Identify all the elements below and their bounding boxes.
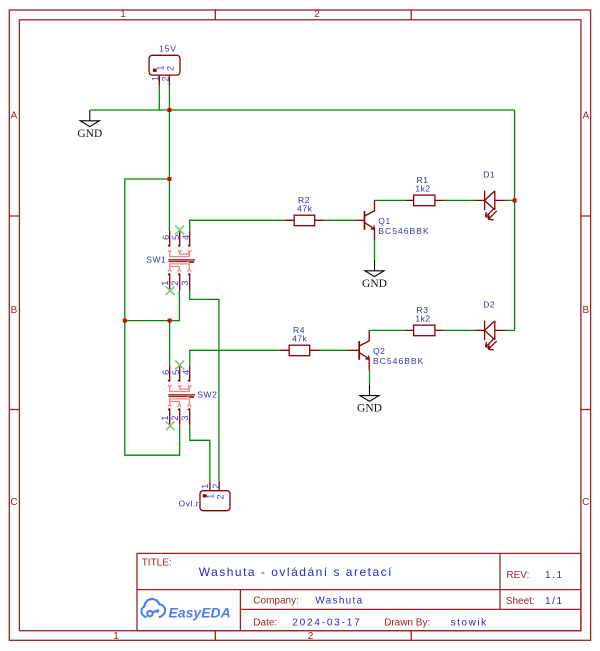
wire Q2 collector to R3 <box>370 329 405 331</box>
wire Q2 emitter to GND <box>369 369 371 385</box>
connector P1 15V body <box>149 55 180 75</box>
svg-text:Sheet:: Sheet: <box>506 596 535 607</box>
resistor R4 body <box>289 345 310 356</box>
svg-text:2: 2 <box>211 484 221 489</box>
junction left rail y320 <box>123 319 127 323</box>
svg-text:2: 2 <box>161 76 171 81</box>
svg-text:B: B <box>11 305 18 316</box>
ground GND1 <box>77 110 102 140</box>
svg-text:C: C <box>10 497 17 508</box>
diode D2 <box>475 321 505 350</box>
svg-text:A: A <box>11 111 18 122</box>
titleblock outline <box>137 553 581 630</box>
svg-text:Company:: Company: <box>253 596 299 607</box>
wire 15V pin2 drop <box>168 86 170 110</box>
TITLEBLOCK <box>137 553 581 630</box>
diode D1 <box>475 191 505 220</box>
wire R4 to Q2 base <box>320 349 351 351</box>
svg-text:Ovl.r: Ovl.r <box>178 499 199 509</box>
EasyEDA logo cloud <box>141 599 165 617</box>
svg-text:2: 2 <box>166 66 176 71</box>
resistor R1 leads <box>405 199 445 201</box>
titleblock row divider 1 <box>137 589 581 591</box>
switch SW1 <box>168 231 195 291</box>
wire SW1 pin2 to left rail <box>125 291 180 321</box>
svg-text:stowik: stowik <box>451 618 488 629</box>
svg-text:47k: 47k <box>297 204 313 214</box>
wire top rail horizontal 15V <box>91 109 515 111</box>
resistor R1 body <box>414 195 435 206</box>
ground GND3 <box>357 385 382 415</box>
titleblock divider logo cell <box>239 590 241 631</box>
switch SW2 <box>168 366 195 426</box>
wire branch left at y179 <box>125 179 180 455</box>
svg-text:D2: D2 <box>483 299 495 309</box>
svg-text:EasyEDA: EasyEDA <box>169 604 231 620</box>
svg-text:TITLE:: TITLE: <box>142 558 172 569</box>
connector P1 pin1 mark <box>153 69 157 72</box>
connector P2 Ovl.r body <box>200 491 230 511</box>
svg-text:4: 4 <box>181 370 192 375</box>
titleblock divider right cells <box>499 553 501 609</box>
svg-text:1: 1 <box>155 65 165 70</box>
frame tick right 1 <box>581 215 591 217</box>
junction at 15V pin2 <box>167 108 171 112</box>
connector P2 pin2 stub <box>218 481 220 490</box>
svg-text:1k2: 1k2 <box>415 314 430 324</box>
svg-text:2: 2 <box>308 631 314 642</box>
svg-text:1: 1 <box>120 9 126 20</box>
junction SW2 pin6 branch <box>168 319 172 323</box>
connector P2 pin1 stub <box>209 481 211 490</box>
frame tick right 2 <box>581 409 591 411</box>
svg-text:2: 2 <box>314 9 320 20</box>
wire D2 to right rail <box>505 329 515 331</box>
junction left branch y179 <box>167 177 171 181</box>
resistor R2 body <box>294 215 315 226</box>
svg-text:2: 2 <box>216 494 226 499</box>
ground GND2 <box>362 260 387 290</box>
svg-text:Q1: Q1 <box>378 216 390 226</box>
svg-text:2024-03-17: 2024-03-17 <box>292 618 361 629</box>
svg-text:1: 1 <box>113 631 119 642</box>
svg-text:B: B <box>582 305 589 316</box>
resistor R4 leads <box>281 349 320 351</box>
wire Q1 emitter to GND <box>374 239 376 260</box>
no-connect X SW1 pin1 <box>166 286 175 295</box>
resistor R2 leads <box>286 219 325 221</box>
frame tick left 1 <box>9 215 19 217</box>
svg-text:SW2: SW2 <box>197 390 217 400</box>
svg-text:15V: 15V <box>159 43 177 53</box>
svg-text:3: 3 <box>180 415 191 420</box>
junction D1 right rail <box>513 198 517 202</box>
svg-text:REV:: REV: <box>506 570 529 581</box>
no-connect X SW2 pin1 <box>166 421 175 430</box>
wire SW1 pin4 to R2 <box>190 220 286 231</box>
transistor Q2 <box>349 330 369 370</box>
frame tick left 2 <box>9 409 19 411</box>
connector P2 pin1 mark <box>203 494 207 497</box>
wire SW1 pin3 to Ovl.r pin2 <box>190 291 219 482</box>
wire R1 to D1 <box>444 199 475 201</box>
resistor R3 body <box>414 325 435 336</box>
svg-text:A: A <box>582 111 589 122</box>
svg-text:Drawn By:: Drawn By: <box>384 618 430 629</box>
no-connect X SW2 pin5 <box>175 361 184 370</box>
frame tick top 1 <box>214 10 216 20</box>
resistor R3 leads <box>405 329 445 331</box>
wire SW2 pin4 to R4 <box>190 350 281 366</box>
wire SW2 pin3 to Ovl.r pin1 <box>190 426 210 481</box>
svg-text:Q2: Q2 <box>373 346 385 356</box>
wire R2 to Q1 base <box>325 219 355 221</box>
svg-text:3: 3 <box>180 280 191 285</box>
svg-text:47k: 47k <box>292 334 308 344</box>
frame tick bottom 1 <box>214 631 216 641</box>
svg-text:BC546BBK: BC546BBK <box>378 226 429 236</box>
titleblock row divider 2 <box>240 608 581 610</box>
svg-text:1: 1 <box>151 76 161 81</box>
wire right rail vertical <box>514 110 516 330</box>
svg-text:C: C <box>582 497 589 508</box>
wire D1 to right rail <box>505 199 515 201</box>
svg-text:1/1: 1/1 <box>545 596 564 607</box>
wire branch down to SW2 pin6 <box>169 321 171 366</box>
wire 15V pin1 drop <box>158 86 160 110</box>
svg-text:1k2: 1k2 <box>415 184 430 194</box>
connector P1 pin1 stub <box>158 75 160 86</box>
svg-text:BC546BBK: BC546BBK <box>373 356 424 366</box>
connector P1 pin2 stub <box>168 75 170 86</box>
svg-text:Washuta - ovládání s aretací: Washuta - ovládání s aretací <box>199 565 393 579</box>
svg-text:Washuta: Washuta <box>315 596 363 607</box>
svg-text:1: 1 <box>206 494 216 499</box>
no-connect X SW1 pin5 <box>175 226 184 235</box>
frame tick bottom 2 <box>410 631 412 641</box>
svg-text:1: 1 <box>200 484 210 489</box>
frame tick top 2 <box>410 10 412 20</box>
wire rail down to SW1 pin6 <box>168 110 170 231</box>
svg-text:4: 4 <box>181 235 192 240</box>
svg-text:D1: D1 <box>483 169 495 179</box>
wire R3 to D2 <box>444 329 475 331</box>
svg-text:1.1: 1.1 <box>545 570 564 581</box>
wire Q1 collector to R1 <box>375 199 405 201</box>
transistor Q1 <box>355 200 375 240</box>
svg-text:Date:: Date: <box>253 618 277 629</box>
svg-text:SW1: SW1 <box>146 255 166 265</box>
